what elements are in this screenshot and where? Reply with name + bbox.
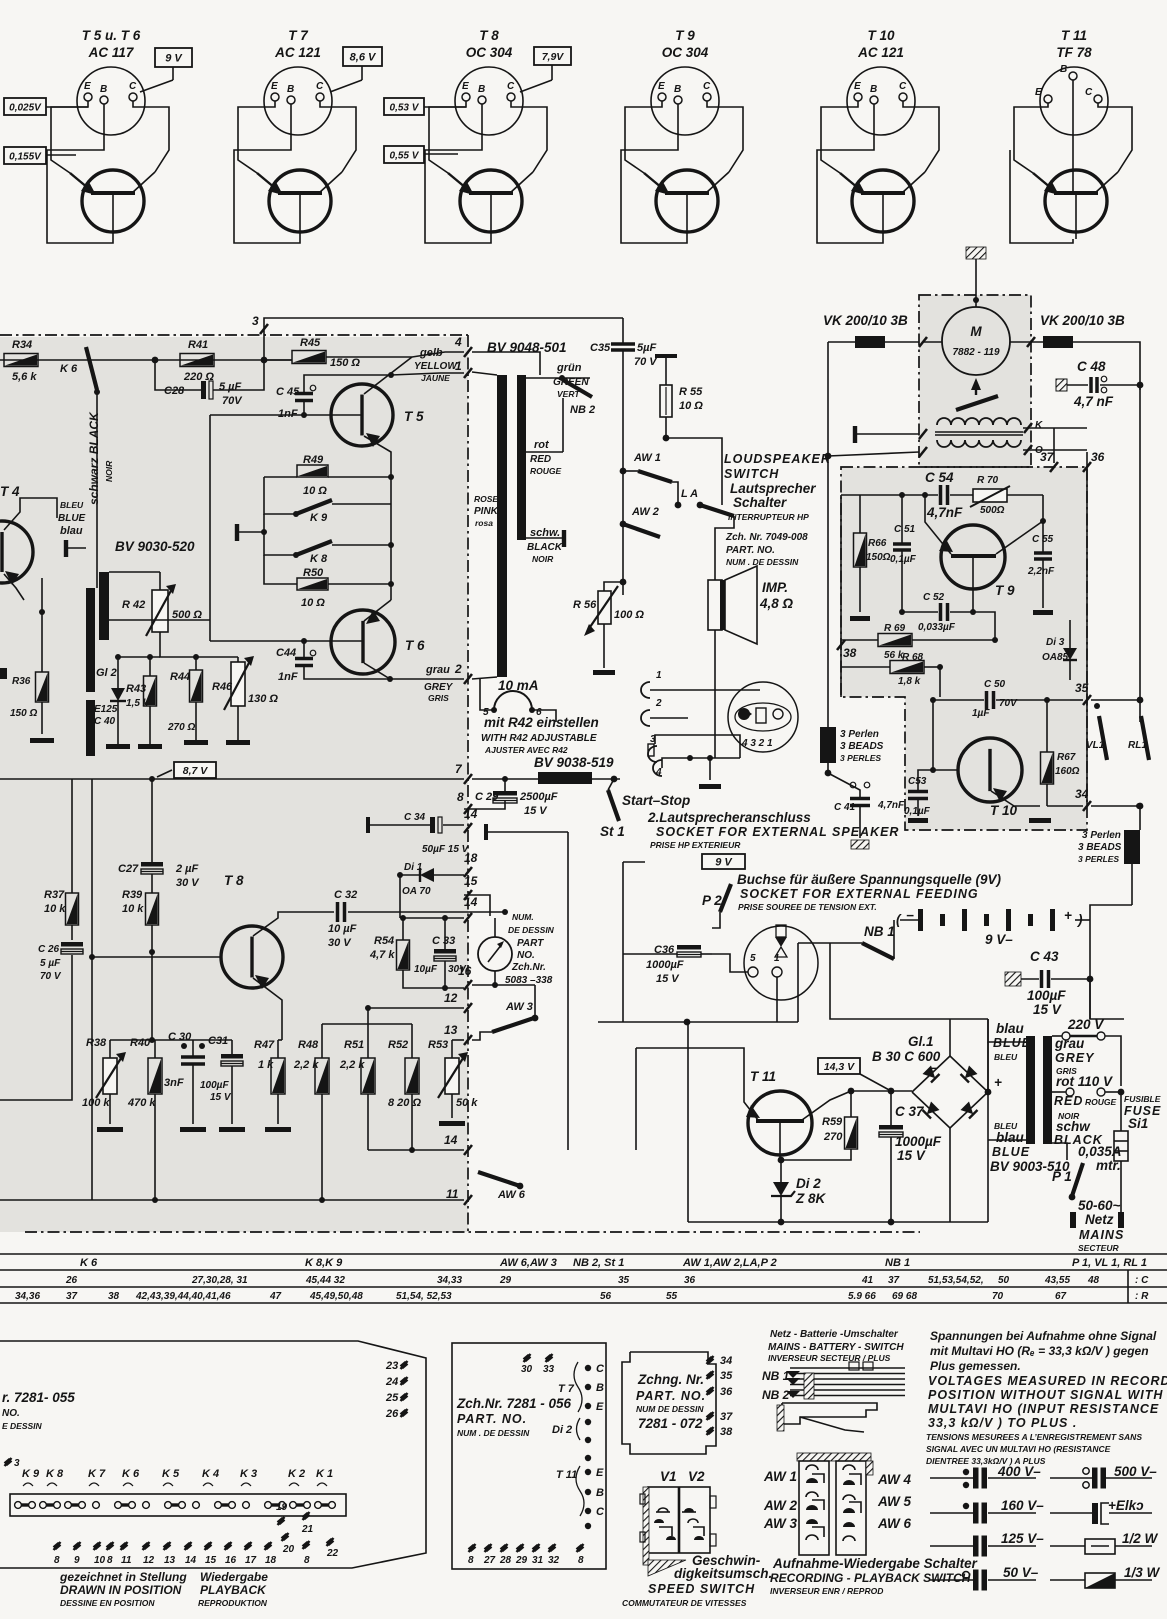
svg-text:C 29: C 29 — [475, 791, 499, 803]
leader wires — [46, 106, 88, 108]
node 7 — [464, 774, 472, 784]
wire T11 collector — [779, 1121, 781, 1160]
svg-text:Gl.1: Gl.1 — [908, 1034, 934, 1049]
svg-text:5.9 66: 5.9 66 — [848, 1291, 876, 1302]
svg-text:NUM . DE DESSIN: NUM . DE DESSIN — [726, 557, 799, 567]
wire rail left seg — [118, 656, 160, 658]
svg-text:PRISE SOUREE DE TENSION EX: PRISE SOUREE DE TENSION EXT. — [738, 902, 877, 912]
svg-text:grau: grau — [1054, 1036, 1085, 1051]
svg-text:M: M — [970, 324, 982, 339]
voltage box 9V ext — [702, 854, 745, 869]
svg-text:Spannungen bei Aufnahme ohne S: Spannungen bei Aufnahme ohne Signal — [930, 1329, 1157, 1343]
svg-text:36: 36 — [684, 1275, 696, 1286]
svg-text:C 51: C 51 — [894, 524, 916, 535]
svg-text:Netz: Netz — [1085, 1212, 1114, 1227]
node 35 — [1070, 699, 1083, 701]
svg-text:R44: R44 — [170, 671, 190, 683]
svg-text:C 32: C 32 — [334, 889, 357, 901]
svg-text:22: 22 — [326, 1548, 339, 1559]
svg-text:C 45: C 45 — [276, 386, 300, 398]
svg-text:AC 121: AC 121 — [274, 45, 321, 60]
node 8 — [464, 804, 472, 814]
svg-text:3 PERLES: 3 PERLES — [840, 753, 881, 763]
svg-text:4 3 2 1: 4 3 2 1 — [741, 738, 773, 749]
svg-text:OA 70: OA 70 — [402, 886, 431, 897]
ground R46 — [226, 740, 250, 745]
svg-text:SPEED SWITCH: SPEED SWITCH — [648, 1582, 755, 1596]
dash-dot panel border bottom — [25, 1231, 920, 1233]
svg-text:+: + — [994, 1075, 1002, 1090]
node 12 — [464, 1003, 472, 1013]
svg-text:T 5: T 5 — [404, 409, 424, 424]
switch K8 — [296, 541, 332, 555]
svg-text:2,2 k: 2,2 k — [339, 1059, 365, 1071]
svg-text:GREY: GREY — [424, 682, 454, 693]
wire base T5 — [210, 414, 362, 416]
switch LA — [675, 502, 682, 509]
svg-text:8 20 Ω: 8 20 Ω — [388, 1097, 421, 1109]
svg-text:C 43: C 43 — [1030, 949, 1059, 964]
svg-text:50 k: 50 k — [456, 1097, 478, 1109]
svg-text:31: 31 — [532, 1555, 544, 1566]
svg-text:PART. NO.: PART. NO. — [726, 545, 775, 556]
svg-text:8,6 V: 8,6 V — [350, 52, 377, 64]
ground R38 — [97, 1127, 123, 1132]
capacitor C33 10µF 30V — [434, 949, 456, 954]
svg-text:18: 18 — [265, 1555, 277, 1566]
ground R56 — [593, 670, 615, 675]
svg-text:K 3: K 3 — [240, 1468, 257, 1480]
svg-text:blau: blau — [996, 1021, 1025, 1036]
wire motor top — [975, 295, 977, 307]
wire bridge top — [949, 1019, 951, 1056]
transformer BV 9030-520 primary — [86, 588, 95, 692]
capacitor C50 1µF 70V — [985, 691, 989, 709]
bar left edge — [0, 668, 7, 679]
svg-text:2: 2 — [454, 662, 462, 676]
transistor pinout T 11 — [1010, 28, 1132, 243]
svg-text:1000µF: 1000µF — [895, 1134, 942, 1149]
terminal stub right — [484, 824, 488, 840]
svg-text:1: 1 — [656, 670, 662, 681]
svg-text:T 8: T 8 — [479, 28, 499, 43]
svg-text:45,49,50,48: 45,49,50,48 — [309, 1291, 363, 1302]
svg-text:50 V–: 50 V– — [1003, 1565, 1039, 1580]
wire R69 row — [841, 639, 878, 641]
wire schwarz — [96, 392, 98, 588]
wire T8 emitter down — [278, 1039, 282, 1041]
svg-text:1µF: 1µF — [972, 708, 990, 719]
svg-text:R45: R45 — [300, 337, 321, 349]
svg-text:GRIS: GRIS — [428, 693, 449, 703]
resistor R50 10Ω — [297, 578, 328, 590]
svg-text:11: 11 — [446, 1187, 459, 1201]
svg-text:T 9: T 9 — [995, 583, 1015, 598]
svg-text:37: 37 — [66, 1291, 78, 1302]
svg-text:2: 2 — [655, 698, 662, 709]
ground C30 — [180, 1127, 206, 1132]
svg-text:38: 38 — [720, 1426, 733, 1438]
svg-text:K 9: K 9 — [310, 512, 328, 524]
capacitor C27 2µF 30V — [141, 862, 163, 867]
legend 50V — [930, 1579, 973, 1581]
svg-text:5 µF: 5 µF — [40, 958, 61, 969]
wire node4 right — [472, 352, 540, 375]
svg-text:Netz - Batterie -Umschalter: Netz - Batterie -Umschalter — [770, 1329, 899, 1340]
resistor R41 220Ω — [180, 354, 214, 367]
transistor T9 — [941, 525, 1005, 589]
wire T4 emitter arrow — [4, 574, 24, 600]
svg-text:24: 24 — [385, 1376, 398, 1388]
capacitor C54 4,7nF — [939, 485, 943, 505]
node K — [1024, 423, 1032, 433]
wire R55 to LA col — [666, 438, 722, 470]
svg-text:C 50: C 50 — [984, 679, 1006, 690]
node 13 — [464, 1035, 472, 1045]
capacitor C52 0,033µF — [939, 603, 943, 621]
wire T10 area — [932, 700, 934, 770]
motor M 7882-119 — [942, 307, 1010, 375]
svg-text:BLEU: BLEU — [994, 1052, 1018, 1062]
svg-text:2,2nF: 2,2nF — [1027, 566, 1055, 577]
regulator coils row2 — [937, 440, 1021, 447]
resistor R34 5,6k — [4, 354, 38, 367]
svg-text:Lautsprecher: Lautsprecher — [730, 481, 816, 496]
wire T8 emitter — [253, 978, 282, 1040]
svg-text:69 68: 69 68 — [892, 1291, 917, 1302]
svg-text:K 7: K 7 — [88, 1468, 106, 1480]
ground R53 — [439, 1121, 465, 1126]
svg-text:AC 121: AC 121 — [857, 45, 904, 60]
wire node 34 — [1047, 805, 1083, 807]
svg-text:WITH R42 ADJUSTABLE: WITH R42 ADJUSTABLE — [481, 733, 597, 744]
svg-text:5: 5 — [750, 953, 756, 964]
svg-text:160 V–: 160 V– — [1001, 1498, 1044, 1513]
svg-text:ROUGE: ROUGE — [530, 466, 562, 476]
svg-text:AW 1: AW 1 — [763, 1469, 797, 1484]
svg-text:17: 17 — [245, 1555, 257, 1566]
svg-text:C: C — [316, 81, 324, 92]
svg-text:12: 12 — [143, 1555, 155, 1566]
node 18 — [464, 867, 472, 877]
svg-text:R50: R50 — [303, 567, 324, 579]
voltage box 7,9V — [534, 47, 571, 65]
svg-text:COMMUTATEUR DE VITESSES: COMMUTATEUR DE VITESSES — [622, 1598, 747, 1608]
svg-text:23: 23 — [385, 1360, 398, 1372]
svg-text:28: 28 — [499, 1555, 512, 1566]
svg-text:R47: R47 — [254, 1039, 275, 1051]
stub R55 top — [655, 354, 677, 358]
svg-text:Start–Stop: Start–Stop — [622, 793, 690, 808]
svg-text:3 Perlen: 3 Perlen — [840, 729, 879, 740]
svg-text:R59: R59 — [822, 1116, 843, 1128]
board 7281-072 box — [622, 1352, 716, 1454]
svg-text:4,7 nF: 4,7 nF — [1073, 394, 1114, 409]
svg-text:8: 8 — [304, 1555, 310, 1566]
svg-text:PRISE HP EXTERIEUR: PRISE HP EXTERIEUR — [650, 840, 741, 850]
bridge diode TL — [923, 1066, 940, 1083]
speaker — [708, 580, 722, 630]
svg-text:E125: E125 — [94, 704, 118, 715]
svg-text:1: 1 — [774, 953, 780, 964]
resistor R48 2,2k — [315, 1058, 329, 1094]
wire sec top tap — [109, 571, 160, 573]
svg-text:AW 1,AW 2,LA,P 2: AW 1,AW 2,LA,P 2 — [682, 1257, 777, 1269]
svg-text:33,3 kΩ/V ) TO PLUS .: 33,3 kΩ/V ) TO PLUS . — [928, 1416, 1077, 1430]
ground R36 — [30, 738, 54, 743]
legend 500V — [1050, 1477, 1092, 1479]
wire LA to speaker — [715, 516, 734, 580]
capacitor C31 100µF 15V — [221, 1054, 243, 1059]
svg-text:12: 12 — [444, 991, 458, 1005]
transistor T4 — [0, 521, 33, 583]
svg-text:–: – — [930, 1060, 938, 1075]
svg-text:MULTAVI HO (INPUT RESISTANCE: MULTAVI HO (INPUT RESISTANCE — [928, 1402, 1159, 1416]
node O — [1024, 445, 1032, 455]
connector strip — [10, 1494, 346, 1516]
svg-text:Zch.Nr. 7281 - 056: Zch.Nr. 7281 - 056 — [456, 1396, 572, 1411]
svg-text:1/2 W: 1/2 W — [1122, 1531, 1159, 1546]
bridge diode TR — [961, 1066, 978, 1083]
svg-text:R53: R53 — [428, 1039, 448, 1051]
stub blau — [64, 540, 68, 557]
svg-text:SWITCH: SWITCH — [724, 467, 779, 481]
svg-text:C 48: C 48 — [1077, 359, 1106, 374]
capacitor C34 50µF 15V — [430, 817, 435, 833]
svg-text:B: B — [870, 84, 877, 95]
svg-text:C 26: C 26 — [38, 944, 60, 955]
NB mech lower outline — [782, 1403, 877, 1424]
svg-text:14: 14 — [185, 1555, 197, 1566]
switch glyphs V2 — [684, 1508, 694, 1512]
svg-text:NB 1: NB 1 — [762, 1369, 790, 1383]
wire 14a right — [486, 831, 568, 833]
svg-text:R39: R39 — [122, 889, 143, 901]
svg-text:mit R42 einstellen: mit R42 einstellen — [484, 715, 599, 730]
svg-text:C: C — [507, 81, 515, 92]
ferrite beads left — [820, 727, 836, 763]
transistor T6 — [331, 610, 395, 674]
transistor pinout T 5 u. T 6 — [47, 28, 169, 243]
svg-text:R49: R49 — [303, 454, 324, 466]
wire sec to T bases — [109, 619, 210, 621]
svg-text:R52: R52 — [388, 1039, 408, 1051]
wire T8 collector — [253, 912, 334, 936]
Di2 pins — [585, 1419, 591, 1425]
svg-text:35: 35 — [618, 1275, 630, 1286]
svg-text:C: C — [596, 1506, 605, 1518]
table rules — [0, 1253, 1167, 1255]
wire T4 collector — [4, 498, 57, 530]
svg-text:3 PERLES: 3 PERLES — [1078, 854, 1119, 864]
svg-text:L A: L A — [681, 488, 698, 500]
svg-text:digkeitsumsch.: digkeitsumsch. — [674, 1566, 772, 1581]
svg-text:Plus gemessen.: Plus gemessen. — [930, 1359, 1021, 1373]
svg-text:Schalter: Schalter — [733, 495, 787, 510]
svg-text:5 µF: 5 µF — [219, 381, 242, 393]
svg-text:R 68: R 68 — [902, 652, 924, 663]
svg-text:NB 1: NB 1 — [864, 924, 895, 939]
svg-text:AC 117: AC 117 — [88, 45, 135, 60]
svg-text:schw: schw — [1056, 1119, 1091, 1134]
svg-text:8: 8 — [107, 1555, 113, 1566]
mains plug prongs — [1070, 1212, 1076, 1228]
stub K wire — [853, 426, 857, 443]
wire K right — [1023, 427, 1087, 429]
svg-text:B: B — [674, 84, 681, 95]
svg-text:150 Ω: 150 Ω — [10, 708, 37, 719]
svg-text:DRAWN IN POSITION: DRAWN IN POSITION — [60, 1583, 182, 1597]
node 14b — [464, 1145, 472, 1155]
svg-text:Buchse für äußere Spannungsque: Buchse für äußere Spannungsquelle (9V) — [737, 872, 1002, 887]
wire left col — [840, 495, 842, 697]
svg-text:OA85: OA85 — [1042, 652, 1069, 663]
potentiometer R38 100k — [103, 1058, 117, 1094]
svg-text:100µF: 100µF — [200, 1080, 229, 1091]
svg-text:T 4: T 4 — [0, 484, 20, 499]
wire beads col — [827, 456, 829, 727]
wire node2 to primary bottom — [472, 677, 497, 679]
svg-text:P 1, VL 1, RL 1: P 1, VL 1, RL 1 — [1072, 1257, 1147, 1269]
switch glyphs V1 — [658, 1508, 668, 1512]
svg-text:AW 3: AW 3 — [505, 1001, 533, 1013]
svg-text:blau: blau — [996, 1130, 1025, 1145]
wire right col down — [1139, 385, 1141, 722]
svg-text:9: 9 — [74, 1555, 80, 1566]
ground C55 — [1033, 610, 1053, 615]
svg-text:19: 19 — [276, 1502, 288, 1513]
resistor R36 150Ω — [36, 672, 49, 702]
svg-text:INTERRUPTEUR HP: INTERRUPTEUR HP — [728, 512, 809, 522]
legend 400V — [930, 1477, 973, 1479]
svg-text:K 2: K 2 — [288, 1468, 305, 1480]
node 1 gelb wire — [391, 373, 464, 375]
switch AW1 — [620, 468, 627, 475]
svg-text:1/3 W: 1/3 W — [1124, 1565, 1161, 1580]
wire DIN pin5 — [712, 954, 748, 972]
svg-text:REPRODUKTION: REPRODUKTION — [198, 1598, 268, 1608]
wire T4 base col — [41, 578, 43, 634]
svg-text:R41: R41 — [188, 339, 208, 351]
svg-text:: C: : C — [1135, 1275, 1149, 1286]
svg-text:grau: grau — [425, 664, 450, 676]
capacitor C26 5µF 70V — [61, 942, 83, 947]
transistor pinout T 10 — [817, 28, 939, 243]
wire R42 bottom rail — [160, 632, 238, 657]
svg-text:LOUDSPEAKER: LOUDSPEAKER — [724, 452, 831, 466]
svg-text:+Elkɔ: +Elkɔ — [1108, 1498, 1144, 1513]
svg-text:+: + — [1064, 908, 1072, 923]
svg-text:14,3 V: 14,3 V — [824, 1061, 855, 1073]
transformer BV9003 secondary bar — [1043, 1036, 1052, 1144]
resistor R49 10Ω — [297, 465, 328, 477]
svg-text:470 k: 470 k — [127, 1097, 156, 1109]
wire main rail node7 — [0, 778, 464, 780]
svg-text:T 5 u. T 6: T 5 u. T 6 — [82, 28, 141, 43]
capacitor C41 4,7nF — [828, 773, 860, 797]
svg-text:mit Multavi HO (Rₑ = 33,3 kΩ/: mit Multavi HO (Rₑ = 33,3 kΩ/V ) gegen — [930, 1344, 1149, 1358]
wire right rail T5-T6 — [390, 477, 392, 600]
svg-text:14: 14 — [464, 895, 478, 909]
svg-text:20: 20 — [282, 1544, 295, 1555]
svg-text:14: 14 — [464, 807, 478, 821]
transformer BV 9030-520 secondary — [99, 572, 109, 640]
svg-text:50µF 15 V: 50µF 15 V — [422, 844, 470, 855]
wire node14b — [368, 1149, 464, 1151]
ground jack — [699, 784, 721, 789]
svg-text:ROSE: ROSE — [474, 494, 498, 504]
regulator contact blade — [956, 396, 998, 410]
AW glyphs left column — [806, 1465, 818, 1470]
AW switch block — [797, 1453, 871, 1461]
wire collector rail — [802, 1091, 851, 1120]
node 2 — [464, 674, 472, 684]
capacitor C37 1000µF 15V — [879, 1125, 903, 1130]
svg-text:VK 200/10 3B: VK 200/10 3B — [823, 313, 908, 328]
capacitor C51 0,1µF — [893, 542, 911, 546]
svg-text:34: 34 — [1075, 787, 1089, 801]
svg-text:3 BEADS: 3 BEADS — [840, 741, 884, 752]
svg-text:V1: V1 — [660, 1469, 677, 1484]
svg-text:P 1: P 1 — [1052, 1169, 1072, 1184]
svg-text:C 30: C 30 — [168, 1031, 192, 1043]
wire NB1 to bridge rail — [830, 943, 950, 1019]
wire base column x210 — [209, 415, 211, 641]
bridge diode BL — [923, 1102, 940, 1119]
wire node13 — [452, 1039, 464, 1041]
svg-text:K 8: K 8 — [310, 553, 328, 565]
svg-text:21: 21 — [301, 1524, 314, 1535]
svg-text:3 Perlen: 3 Perlen — [1082, 830, 1121, 841]
svg-text:13: 13 — [444, 1023, 458, 1037]
svg-text:E: E — [84, 81, 91, 92]
voltage box 0,53V — [384, 98, 424, 115]
svg-text:P 2: P 2 — [702, 893, 722, 908]
svg-text:NOIR: NOIR — [532, 554, 554, 564]
wire T5 collector — [364, 357, 412, 394]
DIN socket mini — [728, 682, 798, 752]
10mA meter — [494, 691, 532, 710]
resistor R59 270 — [845, 1117, 858, 1149]
svg-text:PLAYBACK: PLAYBACK — [200, 1583, 267, 1597]
node 3 rail — [264, 318, 623, 360]
svg-text:C35: C35 — [590, 342, 611, 354]
svg-text:R48: R48 — [298, 1039, 319, 1051]
svg-text:YELLOW: YELLOW — [414, 361, 458, 372]
svg-text:TENSIONS MESUREES A L’ENREGIST: TENSIONS MESUREES A L’ENREGISTREMENT SAN… — [926, 1432, 1142, 1442]
svg-text:NO.: NO. — [517, 950, 535, 961]
wire C54/R70 — [902, 494, 938, 496]
svg-text:3nF: 3nF — [164, 1077, 184, 1089]
wire base T6 — [210, 640, 363, 642]
svg-text:32: 32 — [548, 1555, 560, 1566]
svg-text:34,36: 34,36 — [15, 1291, 40, 1302]
voltage box 8,6V — [343, 47, 382, 66]
svg-text:BLACK: BLACK — [527, 542, 563, 553]
switch AW3 — [492, 1018, 534, 1032]
wire node12 — [368, 1007, 464, 1009]
svg-text:C 33: C 33 — [432, 935, 455, 947]
svg-text:RED: RED — [1054, 1094, 1083, 1108]
transformer BV9048 primary bar — [497, 375, 507, 677]
svg-text:15 V: 15 V — [210, 1092, 232, 1103]
svg-text:B: B — [1060, 64, 1067, 75]
svg-text:T 7: T 7 — [558, 1383, 575, 1395]
svg-text:100 Ω: 100 Ω — [614, 609, 644, 621]
svg-text:BLUE: BLUE — [58, 513, 86, 524]
svg-text:4,8 Ω: 4,8 Ω — [759, 596, 794, 611]
marker 3 — [5, 1458, 12, 1466]
